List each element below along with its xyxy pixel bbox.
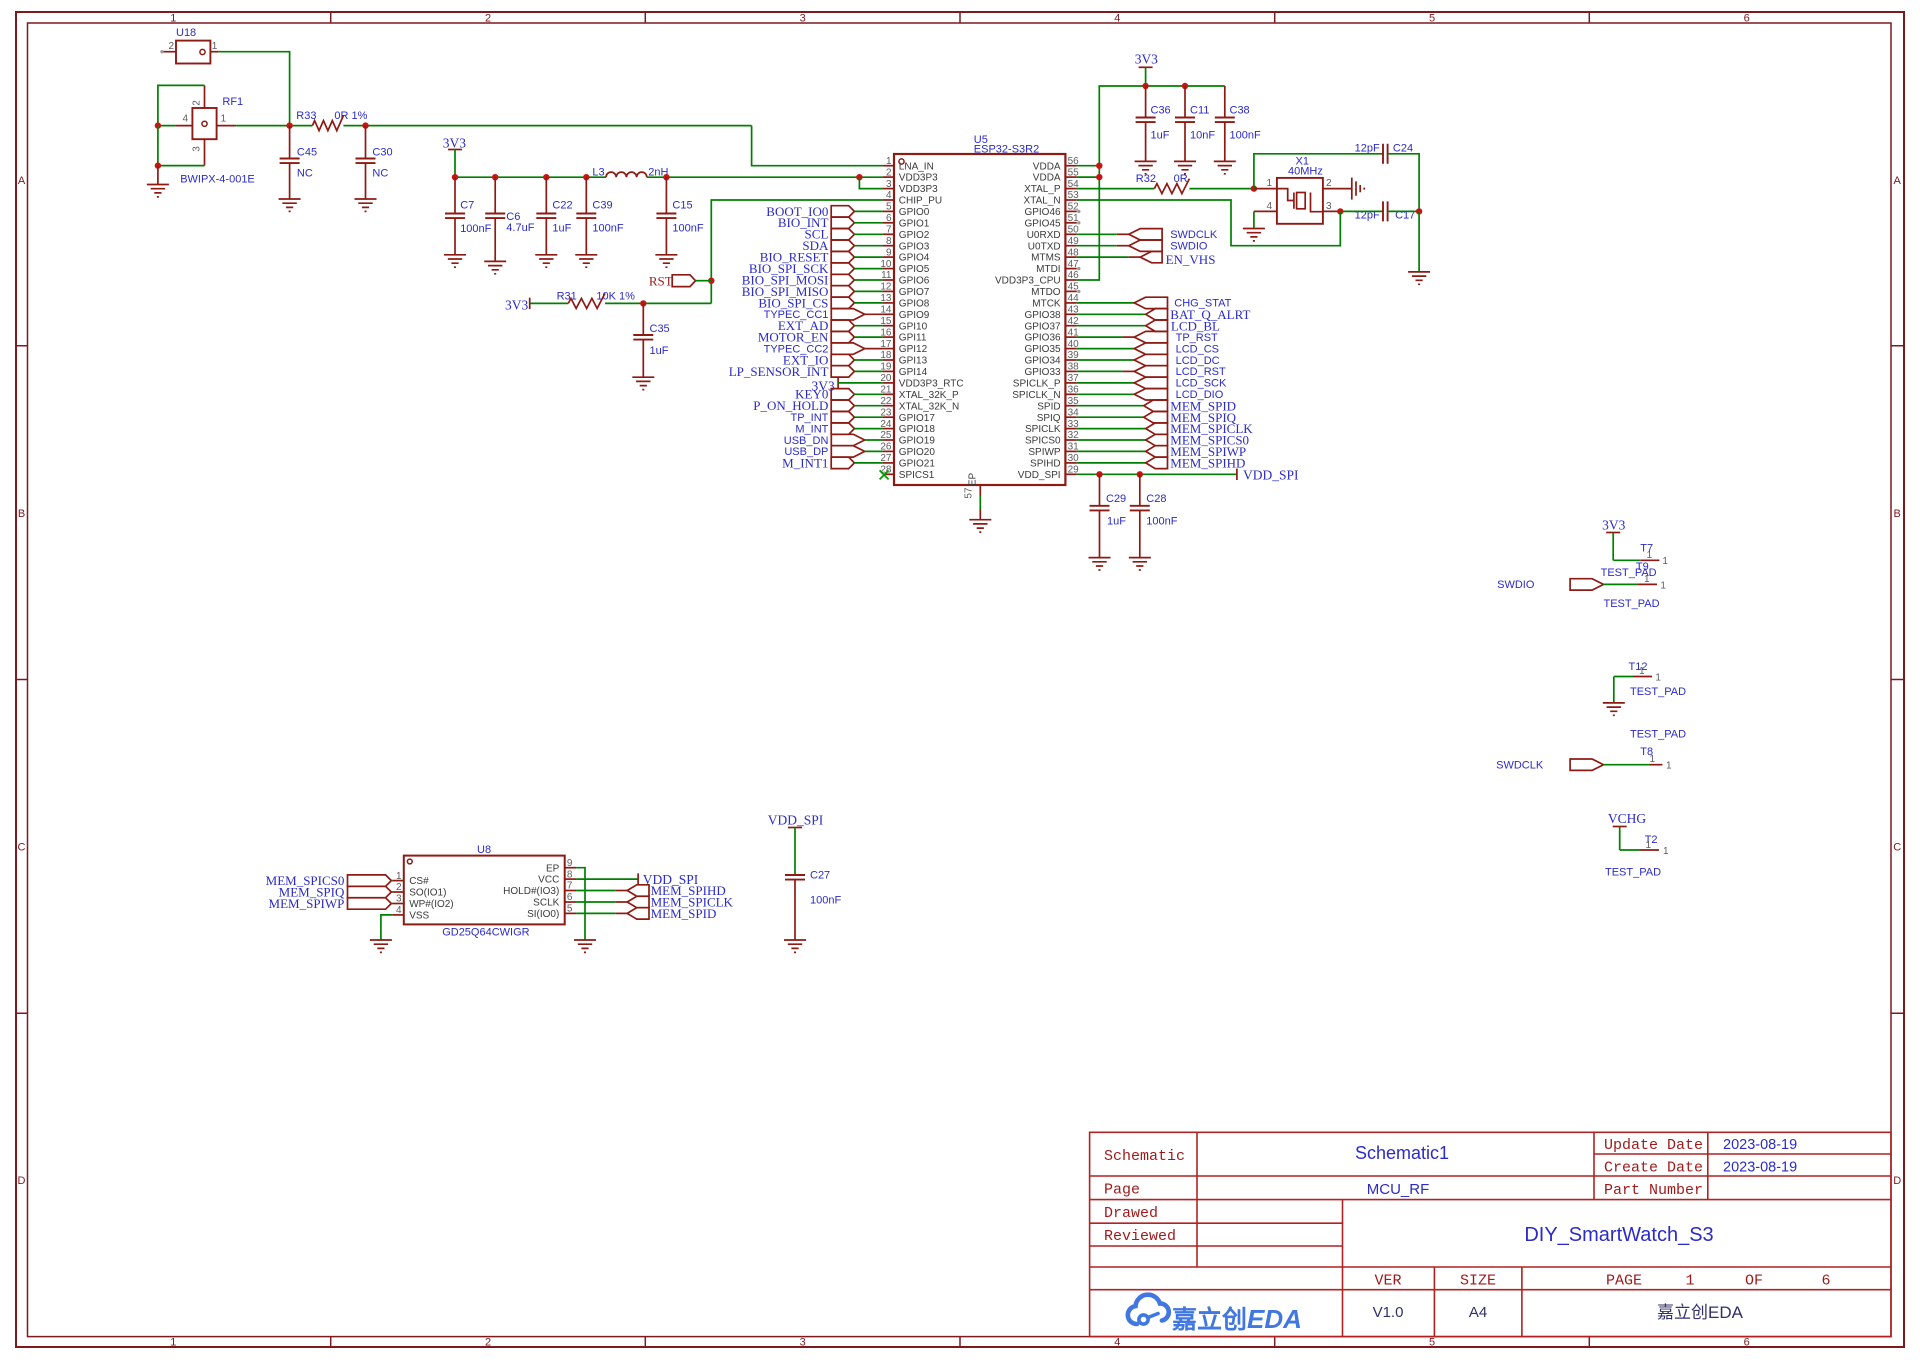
svg-text:T9: T9	[1636, 561, 1649, 573]
svg-text:8: 8	[886, 236, 892, 247]
svg-text:SO(IO1): SO(IO1)	[409, 888, 446, 899]
svg-text:100nF: 100nF	[1230, 130, 1261, 142]
svg-text:RST: RST	[649, 273, 673, 288]
net label BIO_RESET	[760, 250, 883, 265]
net label MEM_SPIWP U8	[269, 896, 393, 911]
junction C11	[1182, 83, 1188, 89]
ground U8 VSS	[370, 940, 392, 952]
svg-text:1: 1	[1666, 761, 1672, 772]
net label MEM_SPICS0	[1077, 433, 1249, 448]
svg-text:7: 7	[567, 881, 573, 892]
svg-text:GPIO4: GPIO4	[899, 253, 930, 264]
net label BIO_SPI_MISO	[742, 284, 883, 299]
svg-text:U0TXD: U0TXD	[1028, 241, 1061, 252]
resistor R31	[557, 290, 636, 308]
net label BIO_INT	[778, 215, 883, 230]
junction C36	[1142, 83, 1148, 89]
ground C6	[484, 261, 506, 273]
svg-text:C: C	[1893, 842, 1901, 854]
net label MEM_SPICLK	[1077, 421, 1253, 436]
svg-text:LP_SENSOR_INT: LP_SENSOR_INT	[729, 364, 829, 379]
svg-text:1: 1	[1663, 846, 1669, 857]
svg-text:1: 1	[221, 114, 227, 125]
svg-text:GPIO1: GPIO1	[899, 218, 930, 229]
wire RF1 pin4	[158, 125, 176, 127]
svg-text:Part Number: Part Number	[1604, 1182, 1703, 1199]
test pad T7	[1601, 543, 1669, 580]
ground C39	[575, 255, 597, 267]
IC U8 GD25Q64CWIGR	[404, 844, 565, 939]
svg-text:1: 1	[1639, 666, 1645, 677]
capacitor C28	[1130, 474, 1178, 557]
svg-text:C27: C27	[810, 870, 830, 882]
svg-text:VDD3P3_CPU: VDD3P3_CPU	[995, 276, 1061, 287]
net label EXT_AD	[778, 318, 883, 333]
svg-text:LNA_IN: LNA_IN	[899, 161, 934, 172]
svg-text:MTDO: MTDO	[1031, 287, 1061, 298]
wire VSS to ground	[381, 915, 393, 940]
X1 pin 2	[1323, 178, 1351, 189]
svg-text:2023-08-19: 2023-08-19	[1723, 1137, 1797, 1153]
svg-text:3V3: 3V3	[505, 298, 528, 313]
svg-text:DIY_SmartWatch_S3: DIY_SmartWatch_S3	[1524, 1224, 1713, 1246]
net label LCD_SCK	[1077, 377, 1227, 390]
svg-text:TP_RST: TP_RST	[1176, 332, 1218, 344]
wire CHIP_PU riser	[711, 200, 882, 303]
svg-text:1: 1	[396, 871, 402, 882]
svg-text:1: 1	[1266, 178, 1272, 189]
ground C38	[1214, 161, 1236, 173]
net label TYPEC_CC1	[764, 309, 883, 322]
junction antenna node	[286, 122, 292, 128]
svg-text:1: 1	[170, 1337, 176, 1349]
svg-text:B: B	[1894, 508, 1901, 520]
svg-text:100nF: 100nF	[810, 895, 841, 907]
junction X1 pin1	[1251, 185, 1257, 191]
svg-text:SPIHD: SPIHD	[1030, 459, 1061, 470]
U5 left pins 1-28	[880, 156, 963, 481]
U18 pin 1	[210, 41, 218, 52]
IC U5 ESP32-S3R2	[894, 134, 1065, 485]
svg-text:12pF: 12pF	[1355, 143, 1380, 155]
ground C7	[444, 255, 466, 267]
net label BAT_Q_ALRT	[1077, 307, 1251, 322]
svg-text:SWDIO: SWDIO	[1497, 579, 1535, 591]
svg-text:嘉立创EDA: 嘉立创EDA	[1657, 1303, 1744, 1322]
svg-text:EN_VHS: EN_VHS	[1166, 252, 1216, 267]
wire VDDA pin56	[1077, 165, 1100, 167]
svg-text:GPI13: GPI13	[899, 356, 928, 367]
svg-text:TEST_PAD: TEST_PAD	[1605, 867, 1661, 879]
svg-text:GPIO0: GPIO0	[899, 207, 930, 218]
svg-text:11: 11	[881, 270, 892, 281]
ground C11	[1174, 161, 1196, 173]
U8 right pins	[503, 858, 576, 920]
U18 pin 2	[160, 41, 176, 54]
net label SDA	[802, 238, 882, 253]
svg-text:L3: L3	[592, 167, 604, 179]
svg-text:57: 57	[964, 487, 975, 499]
svg-text:SIZE: SIZE	[1460, 1273, 1496, 1290]
wire XTAL_N	[1077, 200, 1341, 246]
junction VDDA 55	[1096, 174, 1102, 180]
inductor L3	[592, 167, 668, 179]
svg-text:LCD_CS: LCD_CS	[1176, 343, 1219, 355]
wire R33 to LNA	[343, 125, 751, 127]
resistor R32	[1136, 173, 1190, 194]
svg-text:5: 5	[1429, 13, 1435, 25]
junction RST node	[708, 278, 714, 284]
svg-text:EDA: EDA	[1247, 1304, 1302, 1334]
junction C29	[1096, 471, 1102, 477]
svg-text:Reviewed: Reviewed	[1104, 1228, 1176, 1245]
net label TP_RST	[1077, 331, 1218, 344]
antenna connector RF1	[192, 96, 243, 139]
junction C28	[1137, 471, 1143, 477]
svg-text:SCLK: SCLK	[533, 898, 559, 909]
svg-text:VDD_SPI: VDD_SPI	[768, 813, 824, 828]
junction C30 node	[362, 122, 368, 128]
ground C29	[1089, 558, 1111, 570]
capacitor C45	[280, 126, 317, 199]
svg-text:2: 2	[168, 41, 174, 52]
svg-text:SPICLK_N: SPICLK_N	[1012, 390, 1060, 401]
capacitor C35	[633, 303, 669, 377]
resistor R33	[296, 110, 367, 131]
wire VDD3P3 pin3	[859, 177, 882, 188]
svg-text:MCU_RF: MCU_RF	[1367, 1181, 1430, 1198]
svg-text:C6: C6	[506, 211, 520, 223]
svg-text:GPIO21: GPIO21	[899, 459, 936, 470]
svg-text:2023-08-19: 2023-08-19	[1723, 1160, 1797, 1176]
ground C15	[655, 255, 677, 267]
svg-text:3: 3	[886, 179, 892, 190]
svg-text:TP_INT: TP_INT	[790, 412, 828, 424]
wire RF1 pin3 loop	[158, 126, 205, 166]
svg-text:C29: C29	[1106, 493, 1126, 505]
logo JLCEDA	[1128, 1295, 1302, 1334]
svg-text:SWDCLK: SWDCLK	[1170, 229, 1218, 241]
svg-text:Schematic: Schematic	[1104, 1148, 1185, 1165]
svg-text:40MHz: 40MHz	[1288, 166, 1323, 178]
svg-text:PAGE: PAGE	[1606, 1273, 1642, 1290]
net label MEM_SPICLK U8	[576, 895, 733, 910]
svg-text:TEST_PAD: TEST_PAD	[1604, 598, 1660, 610]
svg-text:SPICLK_P: SPICLK_P	[1013, 379, 1061, 390]
U8 left pins	[392, 871, 453, 922]
svg-text:MTCK: MTCK	[1032, 299, 1061, 310]
svg-text:1uF: 1uF	[1107, 516, 1126, 528]
svg-text:C24: C24	[1393, 143, 1413, 155]
junction RF1 pin4	[155, 122, 161, 128]
RF1 pin 2	[192, 85, 205, 108]
svg-text:3V3: 3V3	[1602, 518, 1625, 533]
U5 right pins 29-56	[995, 156, 1079, 481]
svg-text:U0RXD: U0RXD	[1027, 230, 1061, 241]
svg-text:XTAL_P: XTAL_P	[1024, 184, 1061, 195]
svg-text:1: 1	[170, 13, 176, 25]
svg-text:GPIO18: GPIO18	[899, 424, 936, 435]
svg-text:7: 7	[886, 225, 892, 236]
svg-text:0R: 0R	[1174, 173, 1188, 185]
net label MEM_SPIHD U8	[576, 883, 726, 898]
svg-text:1: 1	[1655, 672, 1661, 683]
capacitor C38	[1215, 86, 1261, 161]
svg-text:1: 1	[1685, 1273, 1694, 1290]
capacitor C6	[485, 177, 535, 261]
svg-text:100nF: 100nF	[1146, 516, 1177, 528]
svg-text:C28: C28	[1146, 493, 1166, 505]
RF1 pin 4	[176, 114, 193, 126]
svg-text:EP: EP	[546, 863, 560, 874]
svg-text:USB_DN: USB_DN	[784, 435, 829, 447]
junction C39 node	[583, 174, 589, 180]
svg-text:GPIO3: GPIO3	[899, 241, 930, 252]
svg-text:6: 6	[567, 892, 573, 903]
svg-text:VDD_SPI: VDD_SPI	[1018, 470, 1061, 481]
title block values	[1355, 1137, 1797, 1322]
svg-text:C35: C35	[650, 323, 670, 335]
svg-text:C38: C38	[1230, 105, 1250, 117]
wire 3V3 rail	[455, 176, 606, 178]
net label MEM_SPICS0 U8	[266, 873, 393, 888]
capacitor C15	[656, 177, 703, 255]
svg-text:5: 5	[1429, 1337, 1435, 1349]
ground C22	[535, 255, 557, 267]
IC U18	[176, 27, 210, 64]
svg-text:MEM_SPIWP: MEM_SPIWP	[269, 896, 345, 911]
svg-text:OF: OF	[1745, 1273, 1763, 1290]
svg-text:M_INT1: M_INT1	[782, 455, 828, 470]
svg-text:10nF: 10nF	[1190, 130, 1215, 142]
wire R31 to CHIP_PU	[605, 302, 711, 304]
svg-text:2: 2	[192, 100, 203, 106]
svg-text:8: 8	[567, 869, 573, 880]
svg-text:2: 2	[485, 13, 491, 25]
junction C15 node	[663, 174, 669, 180]
net label MEM_SPIQ	[1077, 410, 1237, 425]
svg-text:MEM_SPID: MEM_SPID	[651, 906, 717, 921]
junction C6 node	[492, 174, 498, 180]
net label SWDIO	[1077, 240, 1208, 253]
svg-text:3: 3	[800, 1337, 806, 1349]
svg-text:P_ON_HOLD: P_ON_HOLD	[753, 398, 828, 413]
svg-text:D: D	[18, 1175, 26, 1187]
svg-text:MEM_SPIHD: MEM_SPIHD	[1170, 456, 1245, 471]
svg-text:VCC: VCC	[538, 875, 559, 886]
svg-text:LCD_SCK: LCD_SCK	[1176, 378, 1227, 390]
capacitor C22	[536, 177, 572, 255]
svg-text:2: 2	[396, 882, 402, 893]
svg-text:XTAL_32K_P: XTAL_32K_P	[899, 390, 959, 401]
svg-text:3: 3	[192, 146, 203, 152]
test pad T2	[1605, 834, 1669, 879]
svg-text:GPIO34: GPIO34	[1024, 356, 1061, 367]
svg-text:GPIO19: GPIO19	[899, 436, 936, 447]
wire U8 EP to ground	[576, 868, 585, 940]
svg-text:3: 3	[800, 13, 806, 25]
X1 pin 4	[1254, 201, 1277, 212]
capacitor C30	[356, 126, 393, 199]
svg-text:VDD3P3: VDD3P3	[899, 184, 938, 195]
power flag VCHG T2	[1608, 811, 1647, 850]
net label CHG_STAT	[1077, 297, 1232, 310]
svg-text:WP#(IO2): WP#(IO2)	[409, 899, 453, 910]
svg-text:6: 6	[1821, 1273, 1830, 1290]
svg-text:GPIO38: GPIO38	[1024, 310, 1061, 321]
svg-text:CHIP_PU: CHIP_PU	[899, 196, 942, 207]
wire C17 to ground	[1418, 211, 1420, 272]
ground C27	[784, 940, 806, 952]
svg-text:VDDA: VDDA	[1033, 161, 1061, 172]
RF1 part number BWIPX-4-001E	[180, 174, 255, 186]
net label LCD_DC	[1077, 354, 1220, 367]
svg-text:TEST_PAD: TEST_PAD	[1630, 686, 1686, 698]
net label SWDIO T9	[1497, 561, 1666, 610]
capacitor C29	[1090, 474, 1127, 557]
svg-text:100nF: 100nF	[460, 223, 491, 235]
ground C36	[1135, 161, 1157, 173]
svg-text:C22: C22	[552, 200, 572, 212]
svg-text:C15: C15	[672, 200, 692, 212]
svg-text:XTAL_32K_N: XTAL_32K_N	[899, 401, 959, 412]
svg-text:VSS: VSS	[409, 911, 429, 922]
svg-text:5: 5	[886, 202, 892, 213]
svg-text:Update Date: Update Date	[1604, 1137, 1703, 1154]
svg-text:GD25Q64CWIGR: GD25Q64CWIGR	[442, 927, 529, 939]
svg-text:GPIO2: GPIO2	[899, 230, 930, 241]
ground C45	[279, 199, 301, 211]
svg-text:GPIO6: GPIO6	[899, 276, 930, 287]
net label EXT_IO	[783, 352, 883, 367]
svg-text:SI(IO0): SI(IO0)	[527, 909, 559, 920]
no-connect X SPICS1	[880, 470, 889, 479]
svg-text:6: 6	[886, 213, 892, 224]
svg-text:VDD_SPI: VDD_SPI	[1243, 467, 1299, 482]
junction 3V3 stem	[452, 174, 458, 180]
svg-text:TEST_PAD: TEST_PAD	[1630, 729, 1686, 741]
svg-text:3V3: 3V3	[443, 136, 466, 151]
net label M_INT	[795, 423, 882, 436]
net label SCL	[805, 227, 883, 242]
net label LP_SENSOR_INT	[729, 364, 883, 379]
svg-text:GPIO35: GPIO35	[1024, 344, 1061, 355]
svg-text:GPI14: GPI14	[899, 367, 928, 378]
wire VDD3P3_CPU rail	[1077, 166, 1100, 280]
junction C35 node	[640, 300, 646, 306]
svg-text:NC: NC	[372, 168, 388, 180]
svg-text:MTMS: MTMS	[1031, 253, 1061, 264]
power flag 3V3 rail	[443, 136, 466, 178]
svg-text:1: 1	[212, 41, 218, 52]
power flag 3V3 top	[1135, 52, 1158, 87]
net label MEM_SPIWP	[1077, 444, 1246, 459]
ground T12	[1603, 703, 1625, 715]
wire XTAL_P to R32	[1077, 188, 1155, 190]
svg-text:1uF: 1uF	[1151, 130, 1170, 142]
svg-text:2: 2	[1326, 178, 1332, 189]
svg-text:VDD3P3: VDD3P3	[899, 173, 938, 184]
power flag VDD_SPI	[1077, 467, 1299, 482]
svg-text:3V3: 3V3	[1135, 52, 1158, 67]
svg-text:V1.0: V1.0	[1373, 1304, 1404, 1321]
net label MEM_SPID	[1077, 398, 1236, 413]
svg-text:GPIO20: GPIO20	[899, 447, 936, 458]
svg-text:VER: VER	[1374, 1273, 1401, 1290]
svg-text:Drawed: Drawed	[1104, 1205, 1158, 1222]
junction RF1 gnd	[155, 162, 161, 168]
svg-text:GPIO17: GPIO17	[899, 413, 936, 424]
svg-text:GPIO5: GPIO5	[899, 264, 930, 275]
svg-text:9: 9	[886, 247, 892, 258]
svg-text:C45: C45	[297, 146, 317, 158]
svg-text:2: 2	[886, 167, 892, 178]
svg-text:GPIO8: GPIO8	[899, 299, 930, 310]
U5 EP pin 57	[964, 473, 981, 520]
svg-text:0R 1%: 0R 1%	[334, 110, 367, 122]
svg-text:A4: A4	[1469, 1304, 1487, 1321]
svg-text:3: 3	[1326, 201, 1332, 212]
net label KEY0	[795, 387, 882, 402]
net label M_INT1	[782, 455, 882, 470]
svg-text:1: 1	[1649, 754, 1655, 765]
unconnected pin dots	[1077, 210, 1080, 293]
svg-text:R31: R31	[557, 290, 577, 302]
net label LCD_CS	[1077, 343, 1219, 356]
svg-text:SPIWP: SPIWP	[1028, 447, 1061, 458]
svg-text:U18: U18	[176, 27, 196, 39]
capacitor C24	[1254, 143, 1419, 212]
power flag 3V3 RTC	[812, 377, 883, 393]
svg-text:R33: R33	[296, 110, 316, 122]
svg-text:3: 3	[396, 894, 402, 905]
junction C17 left	[1337, 208, 1343, 214]
net label LCD_DIO	[1077, 389, 1224, 402]
net label SWDCLK	[1077, 229, 1218, 242]
net label TP_INT	[790, 412, 882, 425]
svg-text:CS#: CS#	[409, 876, 429, 887]
net label MEM_SPID U8	[576, 906, 716, 921]
svg-text:Schematic1: Schematic1	[1355, 1143, 1449, 1163]
svg-text:C11: C11	[1190, 105, 1209, 117]
svg-text:BIO_SPI_CS: BIO_SPI_CS	[758, 295, 828, 310]
svg-text:1: 1	[1660, 580, 1666, 591]
ground C17	[1408, 272, 1430, 284]
svg-text:VCHG: VCHG	[1608, 811, 1647, 826]
svg-text:SPICS1: SPICS1	[899, 470, 935, 481]
net label BIO_SPI_MOSI	[742, 272, 883, 287]
svg-text:9: 9	[567, 858, 573, 869]
svg-text:M_INT: M_INT	[795, 423, 828, 435]
ground C28	[1129, 558, 1151, 570]
junction VDD3P3	[856, 174, 862, 180]
capacitor C17	[1340, 201, 1419, 221]
svg-text:GPI11: GPI11	[899, 333, 927, 344]
svg-text:C: C	[18, 842, 26, 854]
svg-text:100nF: 100nF	[672, 223, 703, 235]
wire U18 pin1 to antenna node	[219, 52, 290, 126]
net label LCD_RST	[1077, 366, 1226, 379]
svg-text:6: 6	[1744, 13, 1750, 25]
capacitor C11	[1175, 86, 1215, 161]
junction C17 right	[1416, 208, 1422, 214]
capacitor C7	[445, 177, 492, 255]
svg-text:LCD_RST: LCD_RST	[1176, 366, 1226, 378]
svg-text:4: 4	[396, 905, 402, 916]
svg-text:GPIO36: GPIO36	[1024, 333, 1061, 344]
net label BOOT_IO0	[766, 204, 882, 219]
ground EP	[969, 520, 991, 532]
